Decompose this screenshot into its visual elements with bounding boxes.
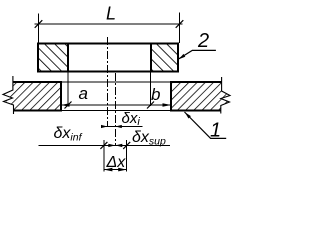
delta x arrow left: [104, 168, 113, 172]
tick at upper limit: [123, 142, 130, 149]
left wall break mask: [0, 78, 14, 114]
leader line to label 2: [179, 50, 216, 59]
tick at a extension: [65, 102, 72, 109]
deviations dimension line: [39, 144, 171, 146]
delta x_i arrow at nominal axis: [115, 125, 122, 128]
dimension L tick left: [35, 20, 43, 28]
dimension L extension line right: [179, 13, 181, 44]
extension line for a (panel bearing edge): [67, 72, 69, 106]
left wall break line: [3, 76, 14, 114]
right wall bottom edge: [171, 110, 221, 112]
svg-text:b: b: [151, 85, 160, 104]
tick at lower limit: [100, 142, 107, 149]
panel left hatch boundary: [67, 44, 69, 72]
delta x dimension line: [104, 169, 127, 171]
delta x_i arrow at panel axis: [101, 125, 108, 128]
panel right hatch boundary: [150, 44, 152, 72]
leader 1 arrowhead: [185, 112, 191, 118]
left wall top edge: [13, 81, 62, 83]
right wall inner face: [170, 81, 172, 112]
right wall hatched area: [171, 82, 230, 111]
svg-text:Δx: Δx: [106, 154, 127, 171]
tick at b extension: [147, 102, 154, 109]
dimension L line: [35, 23, 183, 25]
right wall break line: [221, 77, 230, 114]
panel element 2 body: [38, 44, 178, 72]
opening dimension line: [61, 104, 171, 106]
dimension L tick right: [176, 20, 184, 28]
lower bar top edge across opening: [61, 81, 171, 83]
svg-text:a: a: [79, 84, 88, 103]
double arrow at nominal axis: [108, 144, 115, 147]
leader line to label 1: [185, 112, 227, 138]
upper limit line: [126, 140, 128, 172]
left wall hatched area: [6, 82, 61, 111]
right wall top edge: [171, 81, 222, 83]
dimension L extension line left: [38, 14, 40, 44]
svg-text:L: L: [106, 4, 116, 24]
extension line for b (panel bearing edge): [150, 72, 152, 106]
svg-text:2: 2: [197, 30, 209, 52]
lower limit line: [103, 140, 105, 172]
svg-text:1: 1: [210, 120, 221, 142]
right wall break mask: [221, 78, 233, 114]
left wall inner face: [60, 81, 62, 112]
nominal axis (dash-dot): [114, 73, 116, 146]
panel right hatched end: [152, 44, 177, 70]
delta x_i dimension line: [104, 126, 143, 128]
left wall bottom edge: [13, 110, 61, 112]
arrow at left wall face: [61, 103, 70, 107]
panel axis (dash-dot): [107, 37, 109, 127]
leader 2 arrowhead: [179, 54, 186, 59]
arrow at right wall face: [163, 103, 172, 107]
delta x arrow right: [118, 168, 127, 172]
panel left hatched end: [39, 44, 68, 70]
lower bar bottom edge across opening: [61, 110, 171, 112]
